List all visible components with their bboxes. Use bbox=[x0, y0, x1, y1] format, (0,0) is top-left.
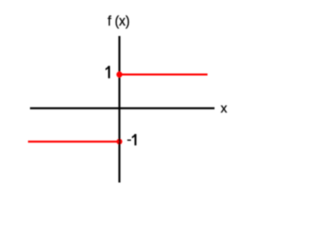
svg-text:x: x bbox=[221, 100, 228, 115]
label -1 digit bbox=[132, 134, 137, 145]
svg-text:f (x): f (x) bbox=[108, 12, 130, 28]
segment f(x)=-1 for x&lt;0 bbox=[28, 141, 119, 143]
label -1 minus sign bbox=[127, 140, 131, 141]
segment f(x)=1 for x&gt;0 bbox=[119, 74, 208, 76]
y-axis bbox=[118, 36, 120, 183]
label 1 bbox=[106, 66, 111, 78]
point (0,1) bbox=[116, 72, 122, 78]
point (0,-1) bbox=[117, 139, 123, 145]
x-axis bbox=[30, 107, 215, 109]
